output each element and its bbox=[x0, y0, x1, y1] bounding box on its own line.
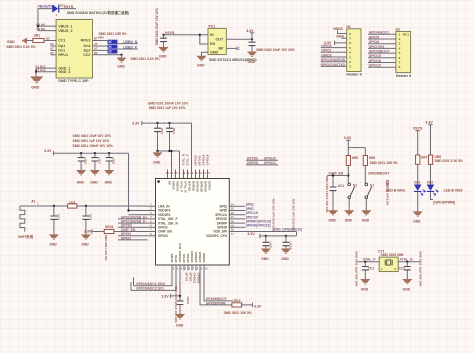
power flag 3.3V (regulator output) bbox=[250, 33, 254, 39]
svg-text:GND: GND bbox=[176, 324, 184, 328]
wire GPIO0 row bbox=[118, 235, 148, 237]
svg-text:SMD 0402 10uF 10V 10%: SMD 0402 10uF 10V 10% bbox=[155, 8, 159, 45]
resistor UR4 (5.1K) bbox=[108, 49, 118, 53]
svg-text:4: 4 bbox=[399, 46, 401, 50]
diode UD1 bbox=[52, 5, 58, 13]
svg-text:SMD TYPE-C 16P: SMD TYPE-C 16P bbox=[58, 79, 89, 83]
wire UR5 to K2 bbox=[347, 165, 349, 183]
svg-text:8: 8 bbox=[349, 32, 351, 36]
capacitor UC5 bbox=[85, 206, 87, 235]
svg-text:[GPIO8/PWM]: [GPIO8/PWM] bbox=[433, 201, 455, 205]
svg-text:A6: A6 bbox=[50, 42, 54, 46]
svg-text:CC1: CC1 bbox=[368, 267, 375, 271]
svg-text:GPIO3: GPIO3 bbox=[158, 234, 168, 238]
wire Dp1 stub bbox=[51, 45, 57, 47]
junction antenna cap UC5 bbox=[85, 205, 87, 207]
wire H2 pin6 bbox=[368, 57, 396, 59]
svg-text:GND: GND bbox=[413, 220, 421, 224]
svg-text:3: 3 bbox=[349, 55, 351, 59]
ground (CC2 pulldown) bbox=[117, 58, 126, 62]
wire GND to UR1 bbox=[27, 40, 33, 42]
svg-text:7: 7 bbox=[399, 61, 401, 65]
wire H1 pin1 bbox=[321, 65, 347, 67]
wire GPIO9/BOOT row bbox=[204, 271, 232, 301]
svg-text:GND_2: GND_2 bbox=[58, 70, 70, 74]
junction antenna cap UC0 bbox=[53, 205, 55, 207]
ground (CC1) bbox=[361, 280, 370, 284]
svg-text:轻触开关 3*4*2.5H: 轻触开关 3*4*2.5H bbox=[386, 180, 391, 205]
wire UR7 to LED1 bbox=[417, 164, 419, 184]
svg-text:SMD 0201 100nF 10V 10%: SMD 0201 100nF 10V 10% bbox=[73, 144, 113, 148]
wire H1 pin3 bbox=[321, 56, 347, 58]
svg-text:A5: A5 bbox=[50, 51, 54, 55]
svg-text:VSYS: VSYS bbox=[413, 126, 423, 130]
svg-text:XTAL_P: XTAL_P bbox=[186, 154, 190, 165]
svg-text:GPIO4/ADC1:SDA: GPIO4/ADC1:SDA bbox=[136, 282, 165, 286]
svg-text:GND: GND bbox=[403, 287, 411, 291]
svg-text:VBUS_2: VBUS_2 bbox=[58, 29, 72, 33]
ground (UC10) bbox=[281, 249, 290, 253]
svg-text:RPU1: RPU1 bbox=[58, 53, 68, 57]
capacitor UC10 bbox=[285, 236, 287, 249]
wire XTAL_P bbox=[358, 261, 380, 263]
wire PU1 OUT to 3.3V bbox=[226, 38, 252, 40]
ground (UC11) bbox=[175, 315, 184, 319]
svg-text:SMD SOD610 BAT60J (5V防倍灌二极管): SMD SOD610 BAT60J (5V防倍灌二极管) bbox=[67, 10, 130, 15]
capacitor UC8 bbox=[108, 153, 110, 170]
wire H2 pin7 bbox=[368, 62, 396, 64]
svg-text:B5: B5 bbox=[46, 36, 50, 40]
svg-text:5: 5 bbox=[349, 46, 351, 50]
ground (UC6) bbox=[77, 171, 86, 175]
svg-text:A6: A6 bbox=[94, 42, 98, 46]
wire GPIO8/PWM row to UR10 bbox=[200, 271, 253, 305]
svg-text:GND: GND bbox=[281, 257, 289, 261]
svg-text:7: 7 bbox=[349, 37, 351, 41]
resistor UR3 (22R) bbox=[108, 45, 118, 49]
wire UR6 to K1 bbox=[364, 165, 366, 183]
wire UC3/UC4 rail bbox=[142, 122, 192, 124]
node pin1 mark bbox=[157, 180, 160, 183]
svg-text:USBD_P: USBD_P bbox=[123, 45, 137, 49]
svg-text:XTAL_N: XTAL_N bbox=[400, 257, 413, 261]
svg-text:VBUS_1: VBUS_1 bbox=[58, 24, 72, 28]
svg-text:3.3V: 3.3V bbox=[44, 149, 52, 153]
svg-text:U0RXD: U0RXD bbox=[192, 181, 196, 192]
capacitor UC2 (regulator input 10uF) bbox=[163, 35, 165, 48]
svg-text:1: 1 bbox=[349, 65, 351, 69]
wire K2 to ground bbox=[348, 199, 350, 211]
svg-text:UC4: UC4 bbox=[172, 128, 176, 134]
svg-text:UC9: UC9 bbox=[268, 242, 272, 248]
svg-text:K1: K1 bbox=[370, 184, 374, 188]
capacitor UC6 bbox=[80, 153, 82, 170]
svg-text:GPIO8/PWM: GPIO8/PWM bbox=[206, 301, 226, 305]
svg-text:GND: GND bbox=[345, 219, 353, 223]
capacitor UC4 bbox=[169, 123, 171, 151]
svg-text:GND: GND bbox=[210, 51, 219, 55]
switch K2 bbox=[348, 183, 351, 186]
svg-text:UC5: UC5 bbox=[88, 214, 92, 220]
svg-text:BP: BP bbox=[219, 47, 225, 51]
ground (UC5) bbox=[81, 235, 90, 239]
svg-text:6: 6 bbox=[349, 41, 351, 45]
capacitor UC12 (regulator output 10uF) bbox=[251, 39, 253, 52]
svg-text:CD1: CD1 bbox=[414, 180, 421, 184]
svg-text:SMD 0201 1uF 10V 10%: SMD 0201 1uF 10V 10% bbox=[272, 198, 276, 232]
svg-text:GND: GND bbox=[81, 243, 89, 247]
svg-text:VDDA3: VDDA3 bbox=[176, 181, 180, 192]
op-amp U2 main IC ESP32-C3 body bbox=[156, 179, 230, 266]
resistor UR5 bbox=[346, 156, 350, 166]
wire H1 pin8 bbox=[338, 30, 347, 33]
svg-text:CHIP_EN: CHIP_EN bbox=[329, 172, 344, 176]
svg-text:A4 B9: A4 B9 bbox=[36, 27, 45, 31]
svg-text:SMD 0201 100nF 10V 10%: SMD 0201 100nF 10V 10% bbox=[148, 101, 188, 105]
svg-text:2: 2 bbox=[399, 37, 401, 41]
wire GPIO18 row bbox=[118, 222, 148, 224]
svg-text:SMD 0201 1uF 10V 10%: SMD 0201 1uF 10V 10% bbox=[73, 139, 110, 143]
wire VDD3P3_CPU rail with caps bbox=[260, 235, 297, 237]
wire H1 pin5 bbox=[321, 47, 347, 49]
svg-text:6: 6 bbox=[399, 56, 401, 60]
svg-text:SMD 0201 100nF 10V 10%: SMD 0201 100nF 10V 10% bbox=[174, 286, 178, 323]
wire VSYS rail to PU1 IN/EN bbox=[164, 35, 209, 44]
svg-text:GND: GND bbox=[329, 219, 337, 223]
wire GND pins bbox=[36, 68, 56, 77]
svg-text:GPIO18: GPIO18 bbox=[200, 181, 204, 192]
svg-text:VDDA: VDDA bbox=[172, 181, 176, 190]
svg-text:VSYS: VSYS bbox=[64, 5, 74, 9]
wire XTAL_N bbox=[398, 261, 420, 263]
wire VBUS pins bbox=[38, 26, 56, 31]
wire GPIO4/ADC1:SDA row bbox=[134, 271, 173, 286]
svg-text:GPIO19: GPIO19 bbox=[196, 181, 200, 192]
connector USB1 SMD TYPE-C 16P bbox=[56, 20, 92, 79]
wire VDD_SPI row bbox=[246, 232, 297, 236]
capacitor UC9 bbox=[265, 236, 267, 249]
svg-text:3: 3 bbox=[399, 42, 401, 46]
svg-text:GPIO10: GPIO10 bbox=[204, 181, 208, 192]
wire GPIO3 row bbox=[118, 239, 148, 241]
switch K1 bbox=[365, 183, 368, 186]
wire H1 pin7 bbox=[341, 37, 346, 39]
svg-text:USBD_N: USBD_N bbox=[123, 40, 137, 44]
ground (CC2) bbox=[403, 280, 412, 284]
svg-text:H1: H1 bbox=[346, 25, 350, 29]
wire IC left stubs bbox=[148, 206, 156, 235]
svg-text:LED-B 0603: LED-B 0603 bbox=[386, 188, 405, 192]
wire GPIO5/ADC2:SCL row bbox=[131, 271, 176, 291]
svg-text:3.3V: 3.3V bbox=[246, 29, 254, 33]
junction CC2 to GND bbox=[120, 54, 122, 56]
wire VDD3P3_RTC down bbox=[179, 271, 181, 301]
wire K1 to ground bbox=[365, 199, 367, 211]
wire IC right stubs bbox=[229, 206, 245, 231]
svg-text:K2: K2 bbox=[353, 184, 357, 188]
svg-text:5: 5 bbox=[399, 51, 401, 55]
ground (UC7) bbox=[90, 171, 99, 175]
ground (CC1 pulldown, sideways) bbox=[22, 38, 27, 44]
svg-text:B5: B5 bbox=[94, 51, 98, 55]
svg-text:3.3V: 3.3V bbox=[247, 232, 255, 236]
svg-text:GND: GND bbox=[197, 63, 205, 67]
svg-text:3.3V: 3.3V bbox=[84, 230, 92, 234]
wire 3.3V rail into VDDA pin bbox=[191, 123, 193, 178]
capacitor UC0 bbox=[53, 206, 55, 235]
svg-text:GND: GND bbox=[248, 60, 256, 64]
svg-text:CC2: CC2 bbox=[399, 267, 406, 271]
wire U0TXD-GPIO20 bbox=[246, 159, 278, 161]
svg-text:SMD 3225 40M: SMD 3225 40M bbox=[381, 253, 404, 257]
svg-text:B1 A12: B1 A12 bbox=[35, 68, 46, 72]
svg-text:GND: GND bbox=[31, 86, 39, 90]
svg-text:UC7: UC7 bbox=[97, 158, 101, 164]
antenna meander bbox=[20, 206, 25, 232]
wire H1 pin4 bbox=[321, 51, 347, 53]
svg-text:UC11: UC11 bbox=[186, 297, 190, 305]
svg-text:UR15: UR15 bbox=[105, 225, 113, 229]
svg-text:GND: GND bbox=[49, 243, 57, 247]
svg-text:SMD 0201 100nF 10V 10%: SMD 0201 100nF 10V 10% bbox=[325, 176, 329, 213]
svg-text:Header 8: Header 8 bbox=[396, 74, 411, 78]
ground (LED1) bbox=[413, 212, 422, 216]
svg-text:A7: A7 bbox=[94, 46, 98, 50]
svg-text:GND: GND bbox=[77, 180, 85, 184]
svg-text:GND: GND bbox=[105, 180, 113, 184]
svg-text:Dp2: Dp2 bbox=[84, 49, 91, 53]
ground (K1) bbox=[362, 211, 371, 215]
resistor UR1 bbox=[33, 38, 44, 42]
svg-text:SMD 0201 10K 5%: SMD 0201 10K 5% bbox=[370, 161, 398, 165]
svg-text:SMD 0201 1uF 10V 10%: SMD 0201 1uF 10V 10% bbox=[292, 198, 296, 232]
wire USBD_P bbox=[117, 48, 138, 50]
svg-text:UR7: UR7 bbox=[421, 155, 428, 159]
ground (output cap) bbox=[247, 52, 256, 56]
wire H2 pin5 bbox=[368, 52, 396, 54]
resistor UR8 bbox=[428, 155, 432, 164]
svg-text:GPIO18: GPIO18 bbox=[206, 154, 210, 165]
capacitor UC3 bbox=[157, 123, 159, 151]
svg-text:IN: IN bbox=[210, 33, 214, 37]
svg-text:UC6: UC6 bbox=[84, 158, 88, 164]
wire U0RXD-GPIO21 bbox=[246, 164, 278, 166]
svg-text:UR6: UR6 bbox=[369, 156, 376, 160]
svg-text:SMD 0201 10K 5%: SMD 0201 10K 5% bbox=[104, 235, 108, 261]
svg-text:SMD 0201 15pF 50V 10%: SMD 0201 15pF 50V 10% bbox=[355, 251, 359, 286]
svg-text:3.3V: 3.3V bbox=[254, 305, 262, 309]
svg-text:XTAL_P: XTAL_P bbox=[180, 181, 184, 192]
svg-text:GND: GND bbox=[159, 55, 167, 59]
ground (UC9) bbox=[261, 249, 270, 253]
svg-text:A7: A7 bbox=[50, 46, 54, 50]
svg-text:Dn1: Dn1 bbox=[58, 49, 65, 53]
svg-text:GPIO9/BOOT: GPIO9/BOOT bbox=[368, 172, 390, 176]
wire LED1 to ground bbox=[417, 192, 419, 212]
ground (UC8) bbox=[105, 171, 114, 175]
svg-text:NC1: NC1 bbox=[403, 32, 409, 36]
wire IC top pin stubs bbox=[168, 170, 208, 179]
svg-text:8: 8 bbox=[399, 65, 401, 69]
svg-text:SMD 0402 10uF 10V 10%: SMD 0402 10uF 10V 10% bbox=[73, 134, 112, 138]
resistor UR6 bbox=[363, 156, 367, 166]
wire Dn2 Dp2 RFU2 CC2 stubs to resistor pack bbox=[93, 41, 122, 55]
svg-text:SMD 0201 1uF 10V 10%: SMD 0201 1uF 10V 10% bbox=[149, 106, 186, 110]
svg-text:SMD 0201 5.1K 5%: SMD 0201 5.1K 5% bbox=[6, 45, 35, 49]
wire U0TXD row bbox=[118, 226, 148, 228]
wire H2 pin8 bbox=[368, 66, 396, 68]
svg-text:SPIHD(GPIO12): SPIHD(GPIO12) bbox=[246, 224, 271, 228]
wire 3.3V rail down to VDD pins bbox=[129, 153, 148, 215]
svg-text:A1: A1 bbox=[31, 199, 35, 203]
svg-text:GND: GND bbox=[361, 287, 369, 291]
wire CHIP_EN row bbox=[114, 231, 148, 233]
ground (UC3/UC4) bbox=[153, 153, 162, 157]
svg-text:VDD_SPI(GPIO11): VDD_SPI(GPIO11) bbox=[273, 228, 302, 232]
svg-text:EP: EP bbox=[168, 181, 172, 185]
svg-text:3.3V: 3.3V bbox=[344, 136, 352, 140]
wire IC bottom stubs bbox=[172, 265, 204, 271]
wire H2 pin4 bbox=[368, 47, 396, 49]
power flag 3.3V (BOOT pullup) bbox=[252, 303, 254, 307]
wire GND bar above IC bbox=[158, 151, 180, 179]
wire PU1 GND pin bbox=[202, 52, 209, 56]
svg-text:UC1: UC1 bbox=[338, 184, 345, 188]
svg-text:SMD 0201 15pF 50V 10%: SMD 0201 15pF 50V 10% bbox=[419, 251, 423, 286]
ground (UC1) bbox=[328, 211, 337, 215]
ground (input cap) bbox=[159, 48, 168, 52]
svg-text:GPIO5/ADC2:SCL: GPIO5/ADC2:SCL bbox=[136, 287, 164, 291]
junction VBUS bbox=[37, 25, 39, 27]
svg-text:Dn2: Dn2 bbox=[84, 44, 91, 48]
wire UR1 to CC1 pin bbox=[44, 40, 56, 42]
wire H2 pin2 bbox=[368, 38, 396, 40]
svg-text:4: 4 bbox=[349, 51, 351, 55]
svg-text:SMD 0402 10uF 10V 20%: SMD 0402 10uF 10V 20% bbox=[256, 48, 295, 52]
svg-text:GPIO1: GPIO1 bbox=[208, 181, 212, 191]
wire H2 pin3 bbox=[368, 43, 396, 45]
svg-text:3.3V: 3.3V bbox=[132, 121, 140, 125]
wire RPU1 stub bbox=[51, 54, 57, 56]
svg-text:UR5: UR5 bbox=[352, 156, 359, 160]
wire H1 pin2 bbox=[321, 61, 347, 63]
capacitor CC2 bbox=[406, 262, 408, 280]
wire Dn1 stub bbox=[51, 49, 57, 51]
svg-text:SMD 0201 22R 5%: SMD 0201 22R 5% bbox=[99, 32, 127, 36]
svg-text:SMD 0201 5.1K 5%: SMD 0201 5.1K 5% bbox=[435, 159, 463, 163]
svg-text:Header 8: Header 8 bbox=[346, 72, 361, 76]
svg-text:CD2: CD2 bbox=[427, 180, 434, 184]
svg-text:CC1: CC1 bbox=[58, 39, 65, 43]
svg-text:GND: GND bbox=[153, 161, 161, 165]
capacitor CC1 bbox=[364, 262, 366, 280]
capacitor UC7 bbox=[94, 153, 96, 170]
svg-text:VDD3P3_CPU: VDD3P3_CPU bbox=[206, 234, 228, 238]
svg-text:U0TXD: U0TXD bbox=[188, 181, 192, 192]
wire decoupling rail bbox=[53, 152, 128, 154]
wire button pullup tee bbox=[348, 148, 365, 156]
svg-text:GND: GND bbox=[117, 64, 125, 68]
ground (K2) bbox=[345, 211, 354, 215]
svg-text:MTCK: MTCK bbox=[184, 273, 188, 282]
svg-text:GPIO8: GPIO8 bbox=[202, 253, 206, 263]
wire H2 pin1 bbox=[368, 33, 396, 35]
wire CHIP_EN branch bbox=[327, 176, 348, 188]
capacitor UC1 bbox=[330, 187, 337, 191]
wire LED2 to GPIO8/PWM bbox=[431, 192, 434, 200]
wire UR8 to LED2 bbox=[430, 164, 432, 184]
svg-text:SMD 0201 10K 5%: SMD 0201 10K 5% bbox=[224, 311, 252, 315]
svg-text:UR1: UR1 bbox=[34, 34, 41, 38]
svg-text:CC2: CC2 bbox=[83, 53, 90, 57]
capacitor UC11 bbox=[177, 301, 184, 305]
svg-text:GND: GND bbox=[7, 40, 15, 44]
svg-text:UC10: UC10 bbox=[288, 242, 292, 250]
svg-text:UC0: UC0 bbox=[56, 214, 60, 220]
svg-text:GND: GND bbox=[362, 219, 370, 223]
svg-text:MTDO: MTDO bbox=[188, 273, 192, 282]
svg-text:SMD 0201 5.1K 5%: SMD 0201 5.1K 5% bbox=[130, 57, 159, 61]
svg-text:GPIO21: GPIO21 bbox=[192, 273, 196, 284]
wire VBUS to diode bbox=[38, 9, 76, 27]
svg-text:OUT: OUT bbox=[216, 38, 225, 42]
svg-text:GND: GND bbox=[261, 257, 269, 261]
ground (UC0) bbox=[49, 235, 58, 239]
resistor UR7 bbox=[416, 155, 420, 164]
ground (PU1) bbox=[197, 56, 206, 60]
svg-text:XTAL_N: XTAL_N bbox=[184, 181, 188, 192]
svg-text:1: 1 bbox=[399, 32, 401, 36]
svg-text:2: 2 bbox=[349, 60, 351, 64]
svg-text:GND: GND bbox=[90, 180, 98, 184]
svg-text:LED-B 0603: LED-B 0603 bbox=[444, 188, 463, 192]
wire PU1 BP no-connect bbox=[226, 47, 236, 49]
svg-text:UR2: UR2 bbox=[98, 36, 104, 40]
svg-text:UC8: UC8 bbox=[112, 158, 116, 164]
svg-text:VBUS: VBUS bbox=[333, 27, 343, 31]
svg-text:Dp1: Dp1 bbox=[58, 44, 65, 48]
svg-text:EN: EN bbox=[210, 42, 215, 46]
svg-text:UC3: UC3 bbox=[160, 128, 164, 134]
svg-text:3.3V: 3.3V bbox=[161, 294, 169, 298]
resistor UR2 (22R) bbox=[108, 40, 118, 44]
wire GPIO19 row bbox=[118, 218, 148, 220]
svg-text:3.3V: 3.3V bbox=[425, 121, 433, 125]
wire USBD_N bbox=[117, 43, 138, 45]
ground (USB shell) bbox=[31, 77, 43, 83]
svg-text:WiFi天线: WiFi天线 bbox=[18, 234, 33, 239]
svg-text:RPU2: RPU2 bbox=[81, 39, 91, 43]
